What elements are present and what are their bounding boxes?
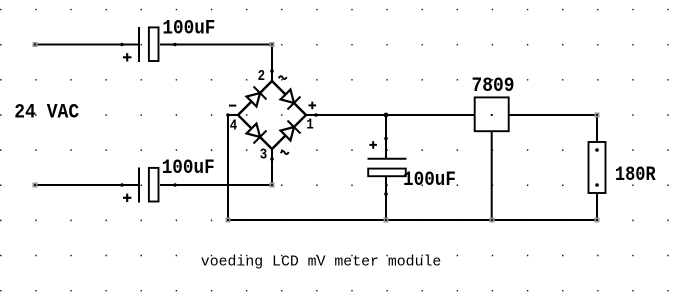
node: junction bottom wire / bridge pin3 bbox=[270, 183, 275, 188]
voltage regulator U1 7809 (box) bbox=[475, 97, 509, 131]
bridge pin number 2 bbox=[258, 69, 265, 85]
wire: top AC input left segment (y=44.5) bbox=[35, 44, 139, 46]
label C2 value 100uF bbox=[162, 155, 215, 179]
label source 24 VAC bbox=[14, 100, 79, 124]
bridge AC mark ~ (bottom) bbox=[281, 151, 289, 154]
bridge lead pin 4 (left) bbox=[228, 114, 238, 116]
wire: drop from top wire to bridge pin 2 bbox=[271, 44, 273, 72]
node: ground rail right end bbox=[595, 218, 600, 223]
wire: R1 bottom to ground rail bbox=[596, 193, 598, 220]
node: C3 to ground rail bbox=[384, 218, 389, 223]
bridge rectifier B1 (diamond outline) bbox=[238, 81, 306, 149]
svg-text:7809: 7809 bbox=[472, 74, 515, 98]
diode D2 (bridge, node2 to node1) bbox=[279, 88, 300, 109]
wire: bottom AC input right segment (y=185) bbox=[160, 184, 272, 186]
wire: top AC input right segment (y=44.5) bbox=[160, 44, 272, 46]
wire: bottom AC input left segment (y=185) bbox=[35, 184, 139, 186]
bridge plus mark (+ output) bbox=[309, 102, 317, 110]
wire: regulator ground pin down to rail bbox=[491, 132, 493, 220]
svg-text:180R: 180R bbox=[615, 163, 656, 187]
node: regulator ground to rail bbox=[490, 218, 495, 223]
bridge lead pin 1 (right) bbox=[306, 114, 316, 116]
junction: C3 branch on output wire bbox=[384, 113, 389, 118]
svg-text:3: 3 bbox=[260, 147, 267, 163]
wire: bridge pin 1 to regulator input bbox=[316, 114, 474, 116]
bridge AC mark ~ (top) bbox=[279, 76, 287, 79]
label R1 value 180R bbox=[615, 163, 656, 187]
svg-text:100uF: 100uF bbox=[162, 16, 215, 40]
bridge pin number 3 bbox=[260, 147, 267, 163]
node: corner top wire to bridge bbox=[270, 42, 275, 47]
label U1 value 7809 bbox=[472, 74, 515, 98]
wire: regulator output to corner bbox=[510, 114, 599, 116]
wire: corner down to R1 top bbox=[596, 115, 598, 142]
bridge pin number 1 bbox=[306, 118, 313, 134]
wire: C3 bottom to ground rail bbox=[385, 177, 387, 220]
resistor R1 180R (load) bbox=[589, 142, 606, 193]
diode D3 (bridge, node4 to node3) bbox=[245, 122, 266, 143]
bridge pin number 4 bbox=[230, 118, 237, 134]
capacitor C1 100uF (top series cap) bbox=[120, 27, 177, 62]
node: bottom AC input terminal bbox=[33, 183, 38, 188]
svg-text:4: 4 bbox=[230, 118, 237, 134]
wire: bridge pin 4 down to ground rail bbox=[227, 115, 229, 220]
wire: C3 branch down from node bbox=[385, 115, 387, 158]
svg-text:voeding LCD mV meter module: voeding LCD mV meter module bbox=[201, 255, 441, 271]
label C3 value 100uF bbox=[403, 168, 456, 192]
node: ground rail left end bbox=[226, 218, 231, 223]
node: top AC input terminal bbox=[33, 42, 38, 47]
bridge minus mark (- output) bbox=[229, 105, 236, 107]
bridge lead pin 3 (bottom) bbox=[271, 149, 273, 159]
label C1 value 100uF bbox=[162, 16, 215, 40]
wire: ground rail (y=220) bbox=[228, 219, 597, 221]
node: output corner to R1 bbox=[595, 113, 600, 118]
wire: bridge pin 3 down to bottom AC wire bbox=[271, 159, 273, 186]
svg-text:2: 2 bbox=[258, 69, 265, 85]
capacitor C2 100uF (bottom series cap) bbox=[120, 168, 177, 203]
svg-text:24 VAC: 24 VAC bbox=[14, 100, 79, 124]
bridge lead pin 2 (top) bbox=[271, 71, 273, 81]
capacitor C3 100uF (smoothing cap) bbox=[368, 137, 407, 196]
svg-text:1: 1 bbox=[306, 118, 313, 134]
diode D4 (bridge, node3 to node1) bbox=[279, 120, 300, 141]
svg-text:100uF: 100uF bbox=[403, 168, 456, 192]
diode D1 (bridge, node4 to node2) bbox=[245, 86, 266, 107]
svg-text:100uF: 100uF bbox=[162, 155, 215, 179]
